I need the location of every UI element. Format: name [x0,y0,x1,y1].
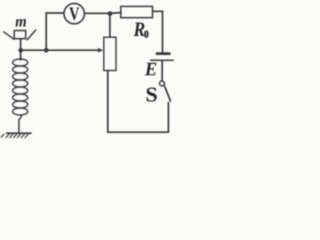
wire: voltmeter to node C [84,12,110,14]
ground hatching [1,134,28,138]
ground anchor line [7,132,32,134]
resistor R0 body [121,6,153,17]
voltmeter V [64,3,84,23]
label m (mass) [16,19,27,27]
wire: node B up and right to voltmeter [46,13,64,50]
spring top lead [20,50,22,60]
wire: node C to resistor R0 [110,12,121,15]
label S [147,88,157,102]
node A junction dot [18,48,23,53]
wiper arrowhead [98,48,103,53]
spring bottom lead [19,115,21,132]
label E [145,63,157,76]
wire: battery bottom plate to switch [161,61,163,81]
battery E top plate (short thick) [157,52,169,55]
switch blade [164,86,170,101]
wire: switch down, bottom run, up to rheostat bottom [108,71,169,133]
wire: node A to rheostat wiper [21,49,99,51]
wire: node C down to rheostat top [109,14,111,38]
node C junction dot [108,11,113,16]
label R0 [134,23,145,37]
right support wing [27,30,35,40]
mass block [14,31,26,39]
wire: mass block down to node A [20,39,22,51]
rheostat body [104,37,116,70]
spring coil [13,59,28,115]
left support wing [4,32,14,39]
wire: R0 right to battery top (top-right corner) [153,11,163,52]
node B junction dot [44,48,49,53]
battery E bottom plate (long thin) [151,59,173,61]
switch pivot circle [160,81,165,86]
